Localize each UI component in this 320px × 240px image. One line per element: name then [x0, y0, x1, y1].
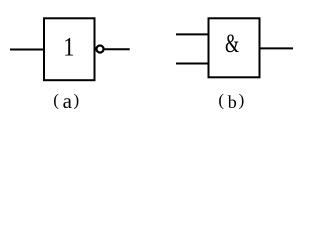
- AND gate U2 (IEC box "&"): [176, 18, 293, 112]
- inversion bubble on U1 output: [96, 45, 103, 52]
- caption (a): [53, 89, 79, 113]
- wire: input 2 of U2: [176, 63, 209, 65]
- svg-text:(: (: [53, 91, 59, 110]
- AND gate U2 body: [209, 18, 260, 77]
- caption (b): [218, 91, 244, 113]
- svg-text:&: &: [225, 29, 240, 58]
- wire: input 1 of U2: [176, 33, 209, 35]
- svg-text:b: b: [228, 92, 237, 112]
- svg-text:): ): [239, 91, 245, 110]
- inverter U1 (IEC box "1"): [10, 18, 130, 113]
- inverter U1 body: [44, 18, 95, 80]
- svg-text:(: (: [218, 91, 224, 110]
- wire: output of U1: [105, 48, 130, 50]
- svg-text:): ): [74, 91, 80, 110]
- svg-text:1: 1: [63, 33, 74, 62]
- svg-text:a: a: [63, 89, 73, 113]
- wire: output of U2: [260, 47, 294, 49]
- wire: input of U1: [10, 49, 44, 51]
